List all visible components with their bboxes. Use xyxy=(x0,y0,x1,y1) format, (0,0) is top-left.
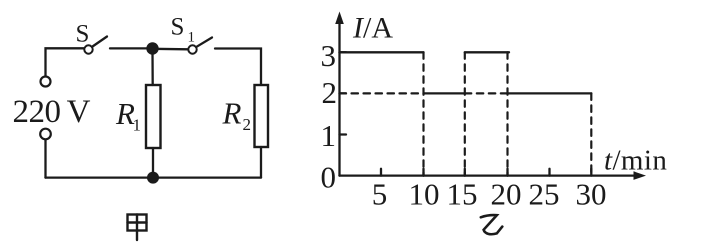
dashed guide t=20 xyxy=(506,52,508,175)
svg-text:t/min: t/min xyxy=(604,145,667,177)
curve segment I=3 t 15-20 xyxy=(465,51,509,53)
svg-text:R: R xyxy=(222,96,242,131)
switch S1 xyxy=(188,38,212,54)
wire R2 bottom stub xyxy=(260,147,262,178)
wire node A to R1 xyxy=(151,52,153,85)
svg-text:2: 2 xyxy=(322,75,338,110)
dashed guide I=2 t 0-10 xyxy=(340,92,424,94)
svg-text:20: 20 xyxy=(491,177,522,212)
svg-text:1: 1 xyxy=(188,30,196,46)
svg-text:220 V: 220 V xyxy=(13,94,91,130)
label jia (甲) figure A xyxy=(128,215,147,241)
dashed guide t=15 xyxy=(464,52,466,175)
curve segment I=2 t 20-30 xyxy=(508,92,592,94)
svg-text:1: 1 xyxy=(133,116,142,135)
dashed guide I=2 t 15-20 xyxy=(465,92,508,94)
dashed guide t=30 xyxy=(590,93,592,175)
x tick 5 xyxy=(380,169,382,176)
node A (top junction dot) xyxy=(146,42,158,54)
node B (bottom junction dot) xyxy=(147,172,159,184)
switch S xyxy=(84,37,107,54)
wire S1 to right branch corner xyxy=(215,49,261,86)
curve segment I=2 t 10-15 xyxy=(424,92,465,94)
source 220V terminal bottom xyxy=(40,129,51,140)
svg-text:5: 5 xyxy=(372,177,388,212)
label yi (乙) figure B xyxy=(481,215,503,234)
wire R1 bottom stub xyxy=(152,148,154,178)
resistor R1 xyxy=(146,85,161,148)
y tick 3 xyxy=(340,51,347,53)
svg-text:S: S xyxy=(76,21,90,48)
svg-text:30: 30 xyxy=(576,177,607,212)
svg-text:0: 0 xyxy=(321,160,337,195)
y tick 2 xyxy=(340,92,347,94)
x tick 10 xyxy=(422,169,424,176)
x tick 25 xyxy=(548,169,550,176)
y tick 1 xyxy=(340,133,347,135)
svg-text:10: 10 xyxy=(409,177,440,212)
resistor R2 xyxy=(255,85,269,147)
x tick 20 xyxy=(506,169,508,176)
svg-text:S: S xyxy=(171,14,185,41)
dashed guide t=10 xyxy=(422,52,424,175)
x tick 30 xyxy=(590,169,592,176)
wire left bottom vertical xyxy=(44,140,46,178)
y axis I/A xyxy=(335,12,344,176)
svg-text:15: 15 xyxy=(447,177,478,212)
curve segment I=3 t 0-10 xyxy=(340,51,424,53)
wire bottom xyxy=(46,176,262,178)
svg-text:I/A: I/A xyxy=(352,12,393,45)
wire node A to S1 xyxy=(153,48,189,51)
svg-text:1: 1 xyxy=(321,118,337,153)
x axis t/min xyxy=(340,171,647,180)
svg-text:3: 3 xyxy=(321,38,337,73)
svg-text:2: 2 xyxy=(243,115,252,134)
wire top-left corner xyxy=(46,48,85,76)
wire S to node A xyxy=(110,47,153,49)
x tick 15 xyxy=(464,169,466,176)
source 220V terminal top xyxy=(41,77,51,87)
svg-text:25: 25 xyxy=(529,177,560,212)
